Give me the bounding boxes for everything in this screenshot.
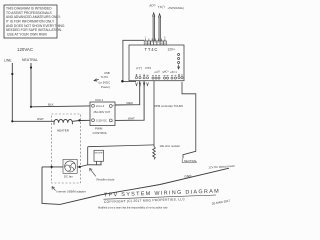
- svg-text:120VAC: 120VAC: [17, 47, 33, 52]
- node NEUTRAL label: [22, 58, 38, 62]
- node NEUTRAL (supply) box: [182, 159, 197, 163]
- controller plug pins below PTT terminals: [136, 83, 149, 87]
- svg-text:HEATER: HEATER: [57, 129, 70, 133]
- junction dot WHT corner: [11, 120, 13, 122]
- resistor R1 10k: [153, 146, 156, 159]
- wire fan return down leg: [42, 167, 60, 205]
- label WHT: [37, 117, 44, 121]
- fine print line: [98, 207, 168, 210]
- label Rectifier diode with pointer: [90, 168, 96, 176]
- svg-text:2ms L4: 2ms L4: [96, 105, 105, 108]
- enclosure (dashed): [52, 114, 81, 183]
- svg-text:PTT: PTT: [136, 66, 142, 70]
- label ACC: [149, 3, 157, 8]
- wire 12V supply from controller right side: [182, 82, 196, 158]
- svg-text:RED: RED: [127, 101, 134, 105]
- disclaimer note text: [6, 7, 65, 37]
- label Internet USB/M adapter with arrow: [52, 187, 56, 191]
- svg-text:12V+: 12V+: [168, 47, 176, 51]
- svg-text:WHT: WHT: [37, 117, 44, 121]
- svg-text:To PC: To PC: [101, 75, 109, 79]
- svg-text:NEUTRAL: NEUTRAL: [184, 159, 197, 163]
- svg-text:10k ohm resistor: 10k ohm resistor: [160, 144, 181, 148]
- copyright line: [104, 197, 186, 204]
- svg-text:CONTROL: CONTROL: [93, 131, 108, 135]
- wire link fan rail to MOSFET: [80, 165, 88, 167]
- junction dot fan rail left: [51, 166, 53, 168]
- junction dot on NEUTRAL: [30, 66, 32, 68]
- svg-text:3-32V DC: 3-32V DC: [96, 120, 107, 123]
- svg-text:Modified to be a seam that thi: Modified to be a seam that this responsi…: [98, 207, 168, 210]
- svg-text:(or 5VDC: (or 5VDC: [99, 80, 111, 84]
- MOSFET legs and source rail: [88, 147, 102, 165]
- svg-text:BLK: BLK: [48, 102, 54, 106]
- wire top rail (MOSFET drain to resistor node): [88, 145, 154, 147]
- date note: [211, 199, 230, 206]
- MOSFET Q1 box: [94, 150, 104, 161]
- wire NEUTRAL vertical: [30, 63, 32, 107]
- wire LINE vertical: [11, 63, 13, 121]
- label DC fan: [64, 174, 73, 178]
- svg-text:25A 240V OUT: 25A 240V OUT: [94, 111, 111, 114]
- label 12V DC laptop power: [208, 164, 235, 170]
- label MOSFET: [95, 153, 105, 155]
- wire BLK (neutral run to SSR): [31, 105, 90, 108]
- title TPV SYSTEM WIRING DIAGRAM: [104, 189, 220, 199]
- wire USB run (strip pin to USB node): [122, 40, 144, 81]
- label PWM CONTROL: [93, 127, 108, 135]
- svg-text:C0A 1: C0A 1: [95, 98, 104, 102]
- svg-text:DC fan: DC fan: [64, 174, 73, 178]
- svg-text:RPM controller TCH09: RPM controller TCH09: [154, 104, 183, 108]
- label SSR designator COA 1: [95, 98, 104, 102]
- svg-text:+5V(SIGNAL): +5V(SIGNAL): [168, 6, 185, 10]
- label +5V SIGNAL: [168, 6, 185, 10]
- svg-text:USE AT YOUR OWN RISK!: USE AT YOUR OWN RISK!: [7, 32, 47, 36]
- svg-text:DT2: DT2: [145, 66, 151, 70]
- node LINE label: [4, 59, 12, 63]
- junction dot fan rail right: [79, 166, 81, 168]
- heater coil HTR1: [54, 119, 90, 124]
- label BLK: [48, 102, 54, 106]
- label 120VAC: [17, 47, 33, 52]
- svg-text:WHT: WHT: [128, 116, 135, 120]
- svg-text:GND: GND: [184, 174, 192, 179]
- svg-text:MOSFET: MOSFET: [95, 153, 105, 155]
- label 10k ohm resistor: [160, 144, 181, 148]
- junction dot on LINE: [11, 73, 13, 75]
- junction dot heater out: [78, 119, 80, 121]
- wire GND diagonal to laptop supply: [60, 168, 229, 204]
- label RPV controller TCH09: [154, 104, 183, 108]
- svg-text:LINE: LINE: [4, 59, 12, 63]
- label TX1: [158, 4, 165, 9]
- svg-text:TT4C: TT4C: [145, 47, 159, 52]
- DC fan M1: [63, 159, 77, 173]
- junction dot BLK corner: [30, 106, 32, 108]
- wire WHT (line run to heater): [12, 120, 54, 122]
- controller top terminal strip: [144, 39, 166, 45]
- label WHT2: [128, 116, 135, 120]
- wire resistor feed from controller: [153, 81, 155, 147]
- svg-text:NEUTRAL: NEUTRAL: [22, 58, 38, 62]
- svg-text:Internet USB/M adapter: Internet USB/M adapter: [57, 190, 86, 194]
- svg-text:Rectifier diode: Rectifier diode: [97, 177, 115, 181]
- label HEATER: [57, 129, 70, 133]
- label USB TO PC: [99, 71, 111, 89]
- controller bottom terminal circles: [135, 74, 183, 79]
- label TT4C: [145, 47, 159, 52]
- label NEUTRAL (supply): [184, 159, 197, 163]
- wire TX pair to radio: [158, 14, 160, 41]
- controller U2 TT4C box: [129, 45, 184, 81]
- arrow USB to PC: [94, 79, 99, 82]
- controller bottom pin labels: [136, 66, 177, 75]
- label GND: [184, 174, 192, 179]
- label RED: [127, 101, 134, 105]
- wire RED (SSR + input to controller PTT): [115, 81, 140, 105]
- controller strip pin numbers: [145, 37, 167, 39]
- title underline: [104, 195, 217, 199]
- label 12V+: [168, 47, 176, 51]
- wire ACC pair to radio: [153, 13, 155, 41]
- controller right pin column: [177, 54, 179, 70]
- SSR U1 box: [90, 102, 115, 126]
- disclaimer note box: [4, 5, 57, 38]
- SSR internal text: [94, 103, 115, 123]
- svg-text:+IN 1: +IN 1: [170, 70, 177, 74]
- wire fan rail: [42, 166, 80, 168]
- wire WHT2 (SSR - input to controller): [115, 81, 144, 121]
- svg-text:Power): Power): [101, 85, 110, 89]
- junction dot USB node: [121, 80, 124, 83]
- SSR terminal circles: [92, 104, 113, 121]
